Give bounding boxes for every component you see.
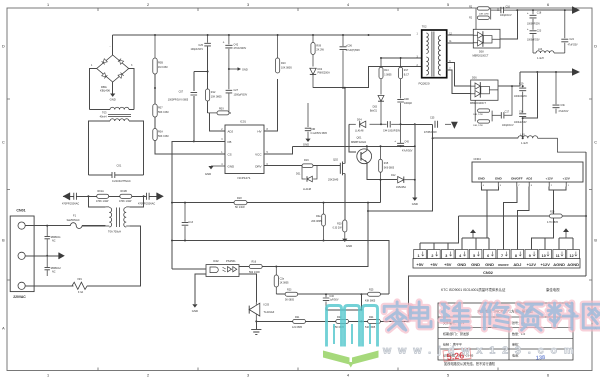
svg-text:56K C0M: 56K C0M	[158, 111, 168, 114]
svg-text:GND: GND	[228, 164, 236, 168]
wire D08 output	[500, 10, 517, 39]
svg-text:T02: T02	[422, 25, 427, 29]
common-mode choke T01 700uH	[106, 207, 130, 234]
wire CN02 GND bracket	[462, 238, 489, 250]
svg-text:470K 1/2W: 470K 1/2W	[119, 200, 132, 203]
wire GND line	[414, 124, 416, 197]
svg-text:MBR20100CT: MBR20100CT	[470, 102, 486, 105]
svg-text:BaV21: BaV21	[370, 109, 378, 112]
capacitor C17 snub mid	[492, 86, 514, 127]
svg-text:2SK2645: 2SK2645	[328, 178, 339, 181]
svg-text:470PF/250V: 470PF/250V	[424, 132, 437, 134]
transistor Q02 MOSFET	[328, 157, 345, 181]
svg-text:470PF/250VAC: 470PF/250VAC	[138, 203, 155, 206]
svg-text:GND: GND	[242, 67, 248, 71]
wire C01 rail	[88, 174, 143, 176]
svg-text:9: 9	[529, 254, 531, 258]
node snubber junctions	[342, 87, 346, 89]
wire FB bus1	[172, 202, 381, 204]
svg-text:+12V: +12V	[563, 176, 571, 180]
svg-text:NCP1271: NCP1271	[237, 176, 250, 180]
svg-text:5K 1/4W: 5K 1/4W	[235, 206, 245, 209]
resistor R29 snub mid	[473, 100, 492, 127]
transistor Q01 MMBT2222A	[351, 136, 372, 164]
resistor R22	[333, 316, 349, 329]
earth arrow right	[157, 193, 164, 201]
svg-text:R0X: R0X	[219, 108, 224, 111]
resistor R23	[285, 289, 298, 302]
svg-text:P6KE200A: P6KE200A	[318, 72, 331, 75]
svg-text:C16: C16	[506, 6, 511, 9]
svg-text:VR1: VR1	[77, 278, 82, 281]
svg-text:GND: GND	[495, 176, 503, 180]
svg-text:GND: GND	[485, 262, 494, 267]
svg-text:2: 2	[147, 374, 149, 378]
svg-text:+: +	[527, 11, 529, 15]
watermark logo teal books	[327, 306, 378, 347]
watermark text wang	[583, 304, 600, 328]
svg-text:C07: C07	[179, 90, 184, 93]
wire T02 pin7 to D06	[447, 70, 471, 93]
wire CN04 GND bracket	[481, 187, 498, 239]
svg-text:R01A: R01A	[98, 190, 105, 193]
watermark text jia	[384, 302, 410, 330]
svg-text:C27: C27	[234, 89, 239, 92]
resistor R28	[547, 210, 562, 223]
node C42 gnd junction	[228, 68, 230, 70]
svg-text:D02: D02	[318, 68, 323, 71]
ground bridge minus	[112, 82, 114, 94]
wire Q02 source to sense	[344, 173, 346, 220]
svg-text:R25: R25	[369, 289, 374, 292]
svg-text:PS2561: PS2561	[226, 259, 236, 263]
output arrow +24V	[572, 6, 580, 14]
capacitor C27	[226, 69, 248, 113]
resistor R15 on ADJ line	[208, 108, 231, 115]
wire opto pin1	[172, 268, 206, 270]
svg-text:R0B: R0B	[158, 62, 163, 65]
svg-text:SB08C12: SB08C12	[51, 267, 62, 270]
watermark text dian	[410, 302, 431, 327]
node rail U junction	[360, 293, 362, 295]
resistor R10 HV	[276, 35, 293, 73]
svg-text:-: -	[110, 45, 111, 49]
svg-text:B: B	[2, 238, 5, 242]
svg-text:NC: NC	[52, 240, 56, 243]
connector CN01	[10, 208, 34, 298]
svg-text:GND: GND	[346, 244, 352, 248]
svg-text:0.22UF/275VAC: 0.22UF/275VAC	[112, 179, 131, 183]
resistor R0B 1M	[153, 35, 168, 74]
filter choke T03	[100, 107, 131, 121]
capacitor C02 Y-cap	[62, 193, 79, 206]
wire FB bus2	[172, 241, 389, 295]
wire Q02 drain	[344, 88, 346, 164]
wire VR1 to T01 return	[87, 226, 140, 286]
svg-text:0.33 2W: 0.33 2W	[333, 227, 343, 230]
diode D02 P6KE200A	[310, 55, 330, 88]
svg-text:+12V: +12V	[540, 262, 550, 267]
svg-text:10: 10	[542, 254, 546, 258]
wire R0B to R07	[154, 74, 156, 104]
wire Q01 emitter	[367, 162, 397, 180]
wire HV net	[264, 79, 278, 131]
svg-text:+5V: +5V	[416, 262, 424, 267]
frame column numbers top	[47, 3, 549, 7]
svg-text:4: 4	[347, 374, 349, 378]
wire CN02 AGND bracket	[559, 238, 573, 250]
capacitor C16 snub	[491, 6, 518, 17]
svg-text:47uF/16V: 47uF/16V	[558, 111, 568, 113]
svg-text:43K 0805: 43K 0805	[365, 300, 376, 303]
ground TL431	[255, 321, 257, 329]
wire bridge AC right rail	[129, 69, 134, 110]
title block header text	[441, 287, 560, 292]
capacitor C18	[527, 10, 542, 30]
svg-text:1 0805: 1 0805	[384, 73, 392, 76]
svg-text:A: A	[2, 326, 5, 330]
svg-text:1000UF/16V: 1000UF/16V	[514, 96, 527, 98]
capacitor C19	[514, 82, 527, 113]
blue phone scribble	[536, 355, 546, 362]
svg-text:40mH: 40mH	[100, 115, 107, 119]
watermark text liao	[548, 303, 577, 329]
capacitor C13	[182, 203, 194, 241]
wire T02 pin9 to D06	[447, 63, 471, 87]
resistor R19 gate	[302, 159, 313, 167]
svg-text:R14: R14	[384, 69, 389, 72]
svg-text:10R, 12W: 10R, 12W	[473, 125, 484, 127]
capacitor C06 snubber	[340, 35, 361, 88]
resistor R24	[365, 316, 380, 329]
wire CN04 pin stubs	[481, 182, 569, 187]
svg-text:C44 100UF/50V: C44 100UF/50V	[383, 129, 401, 132]
wire T03 bottom leads to EMI rails	[88, 121, 143, 175]
resistor R09 snubber	[311, 35, 325, 55]
wire resistor rail	[63, 195, 157, 197]
node stair junction	[432, 137, 434, 139]
capacitor C23	[527, 27, 542, 53]
node right rail junction	[585, 215, 587, 217]
output arrow +12V	[572, 68, 580, 76]
svg-text:1: 1	[47, 374, 49, 378]
svg-text:4.7K 0805: 4.7K 0805	[547, 221, 559, 224]
wire Q01 collector	[366, 146, 368, 150]
svg-text:1N5245A: 1N5245A	[396, 186, 406, 189]
svg-text:470PF/250VAC: 470PF/250VAC	[62, 203, 79, 206]
svg-text:0.1uF/50V 0805: 0.1uF/50V 0805	[311, 133, 328, 135]
svg-text:C: C	[594, 140, 597, 144]
wire HV DC bus	[113, 34, 411, 36]
node link junction	[522, 117, 524, 139]
inductor L03	[518, 133, 586, 152]
svg-text:DRV: DRV	[255, 164, 261, 168]
svg-text:C0R: C0R	[311, 128, 316, 131]
svg-text:1000pF: 1000pF	[404, 102, 413, 105]
resistor R01A	[96, 190, 109, 203]
svg-text:1.4uH: 1.4uH	[537, 57, 544, 60]
svg-text:C17: C17	[505, 111, 510, 114]
svg-text:3: 3	[445, 254, 447, 258]
svg-text:D: D	[2, 44, 5, 48]
inductor L04	[533, 48, 565, 60]
diode D04 LL4148	[349, 118, 387, 132]
svg-text:GND: GND	[457, 262, 466, 267]
capacitor C08 aux	[397, 79, 412, 125]
svg-text:47uF(P)/50V: 47uF(P)/50V	[346, 49, 361, 52]
wire R28 drop	[448, 216, 458, 243]
svg-text:R0a: R0a	[316, 215, 321, 218]
svg-text:GND: GND	[478, 176, 486, 180]
svg-text:5: 5	[447, 3, 449, 7]
svg-text:R23: R23	[287, 289, 292, 292]
wire emitter drop to bus1	[380, 180, 382, 203]
svg-text:+12V: +12V	[546, 176, 554, 180]
svg-text:LL4148: LL4148	[355, 129, 364, 132]
svg-text:20K 0805: 20K 0805	[311, 220, 322, 223]
capacitor C24	[561, 10, 578, 53]
node VCC rail junctions	[366, 145, 402, 180]
capacitor C46	[323, 293, 339, 310]
wire CN01 pin3 to VR1	[25, 285, 73, 287]
wire T01 left bottom	[82, 225, 106, 227]
watermark text wei	[441, 303, 469, 329]
svg-text:47uF/25V: 47uF/25V	[568, 44, 578, 46]
svg-text:K 3A: K 3A	[78, 291, 84, 294]
svg-text:1.4uH: 1.4uH	[521, 142, 528, 145]
svg-text:C23: C23	[537, 29, 542, 32]
svg-text:3: 3	[247, 3, 249, 7]
svg-text:+: +	[527, 27, 529, 31]
bridge rectifier DB1 KBL406	[91, 45, 133, 93]
resistor R07	[153, 104, 169, 117]
wire rail L	[256, 320, 408, 322]
ground CN02 AGND pins	[563, 228, 569, 238]
fuse F1	[67, 213, 83, 228]
wire bridge AC left rail	[90, 69, 97, 110]
resistor R12	[206, 89, 223, 101]
svg-text:C3b: C3b	[560, 104, 565, 107]
wire FB net	[172, 141, 225, 269]
node bus1 junctions	[171, 202, 369, 204]
svg-text:C01: C01	[117, 164, 122, 168]
svg-text:C42: C42	[234, 43, 239, 46]
svg-text:D04: D04	[357, 118, 362, 121]
svg-text:7: 7	[501, 254, 503, 258]
svg-text:康佳电视: 康佳电视	[546, 287, 560, 292]
svg-text:KTC ISO9001 ISO14001质量环境体系认证: KTC ISO9001 ISO14001质量环境体系认证	[441, 287, 506, 292]
node bus2 junctions	[171, 240, 186, 242]
svg-text:Q02: Q02	[333, 157, 338, 161]
svg-text:AGND: AGND	[567, 262, 579, 267]
wire rail M	[326, 294, 361, 310]
node TL431 anode	[255, 320, 257, 322]
svg-text:L03: L03	[521, 133, 526, 136]
svg-text:D08: D08	[479, 50, 484, 53]
wire startup chain to CS net	[155, 141, 225, 155]
svg-text:CS: CS	[228, 152, 232, 156]
ground C42 tap	[229, 67, 248, 71]
svg-text:5K 0805: 5K 0805	[285, 299, 295, 302]
svg-text:ADJ: ADJ	[228, 130, 234, 134]
resistor R18 bus1	[234, 197, 247, 209]
ground opto	[192, 304, 198, 313]
node C07 junctions	[193, 71, 209, 143]
wire fuse to T01	[82, 225, 106, 227]
wire R28 rail	[458, 215, 586, 217]
svg-text:12: 12	[570, 254, 574, 258]
wire aux winding rail	[381, 57, 422, 59]
svg-text:HV: HV	[257, 130, 261, 134]
capacitor C11 NC	[45, 226, 62, 256]
ground C09	[303, 139, 311, 147]
svg-text:+5V: +5V	[444, 262, 452, 267]
varistor VR1	[72, 278, 87, 294]
node D06 out junctions	[511, 85, 524, 87]
svg-text:VCC: VCC	[255, 152, 262, 156]
svg-text:GND: GND	[192, 309, 198, 313]
svg-text:核期(部门)：研发部: 核期(部门)：研发部	[443, 331, 469, 336]
svg-text:6: 6	[487, 254, 489, 258]
svg-text:T03: T03	[102, 111, 107, 115]
watermark text zi	[517, 304, 542, 330]
svg-text:R17: R17	[404, 69, 409, 72]
svg-text:R24: R24	[369, 316, 374, 319]
svg-text:R07: R07	[158, 107, 163, 110]
capacitor C07	[168, 72, 208, 142]
svg-text:2: 2	[431, 254, 433, 258]
svg-text:10K 0805: 10K 0805	[211, 95, 222, 98]
diode D06 MBR20100CT	[470, 77, 498, 105]
svg-text:ON/OFF: ON/OFF	[511, 176, 523, 180]
wire CN04 +12V bracket	[531, 187, 566, 239]
wire snubber rail	[313, 67, 422, 88]
wire CN04 ON/OFF run	[504, 187, 517, 250]
capacitor C45 VCC	[394, 124, 413, 152]
svg-text:R12: R12	[211, 91, 216, 94]
svg-text:如改电路仅从其完结，恕不另行通知: 如改电路仅从其完结，恕不另行通知	[444, 361, 495, 366]
resistor R0a 20K	[311, 202, 325, 242]
frame row letters right	[594, 44, 597, 330]
wire CN02 +12V bracket	[531, 238, 545, 250]
wire feedback stair A	[276, 203, 368, 267]
frame column numbers bottom	[47, 374, 549, 378]
svg-text:47uF/50V: 47uF/50V	[402, 149, 413, 152]
wire +12V CN rail	[433, 137, 518, 139]
svg-text:www.jdwx123.com: www.jdwx123.com	[382, 345, 580, 357]
svg-text:1: 1	[417, 254, 419, 258]
node rail junctions	[87, 195, 144, 197]
svg-text:C34: C34	[519, 110, 524, 113]
resistor R01B	[119, 190, 132, 203]
capacitor C35 Y-cap secondary	[424, 117, 438, 135]
node GND line junctions	[414, 123, 416, 180]
resistor R14 aux	[379, 58, 392, 79]
svg-text:2: 2	[147, 3, 149, 7]
svg-text:D12: D12	[391, 174, 396, 177]
wire CN01 pin2 earth	[25, 255, 59, 257]
wire T02 pin11 to D08	[447, 42, 474, 44]
svg-text:TL431AZ: TL431AZ	[264, 310, 275, 314]
svg-text:1000uF/25V: 1000uF/25V	[527, 40, 540, 42]
capacitor C31	[553, 72, 569, 114]
wire EMI rails to T01	[88, 196, 143, 207]
diode D01 LL4148 gate	[296, 166, 317, 192]
node bus junctions	[154, 34, 370, 36]
red stamp	[443, 348, 471, 362]
svg-text:+C06: +C06	[346, 45, 353, 48]
capacitor C25	[190, 35, 210, 51]
svg-text:R01B: R01B	[121, 190, 128, 193]
svg-text:R15: R15	[384, 162, 389, 165]
svg-text:CN01: CN01	[16, 208, 25, 212]
node C11 C12 tap	[46, 255, 48, 257]
wire D06 output	[498, 72, 520, 86]
node +24V junctions	[516, 9, 566, 11]
svg-text:56K C0M: 56K C0M	[158, 135, 168, 138]
connector CN04	[472, 157, 583, 182]
svg-text:IC01: IC01	[240, 119, 246, 123]
svg-text:11: 11	[556, 254, 560, 258]
svg-text:C46: C46	[329, 295, 334, 298]
svg-text:MMBT2222A: MMBT2222A	[351, 140, 366, 144]
svg-text:GND: GND	[471, 262, 480, 267]
ground aux cluster	[412, 198, 418, 207]
svg-text:B,C?: B,C?	[404, 73, 410, 76]
node startup mid	[154, 87, 156, 89]
wire CN01 pin1 to fuse	[25, 225, 70, 227]
wire R19 to gate	[313, 165, 340, 167]
svg-text:IC02: IC02	[213, 259, 219, 263]
svg-text:+: +	[223, 41, 225, 45]
op-amp IC03 TL431AZ	[249, 303, 274, 322]
svg-text:L04: L04	[538, 48, 543, 51]
resistor R26 1K	[274, 267, 289, 295]
wire CN04 ADJ run	[517, 187, 529, 250]
resistor R16	[249, 260, 262, 273]
ground CN02 GND pins	[470, 229, 476, 238]
wire VCC pin net	[264, 146, 292, 154]
svg-text:LL4148: LL4148	[303, 188, 312, 191]
svg-text:+12V: +12V	[527, 262, 537, 267]
watermark logo green book	[323, 351, 379, 368]
wire rail U	[276, 293, 389, 295]
svg-text:Q01: Q01	[357, 136, 362, 140]
svg-text:10K 0805: 10K 0805	[281, 66, 292, 69]
ground IC01 pin4	[205, 166, 225, 176]
diode D03 BaV21	[370, 79, 384, 125]
capacitor C01 X-cap	[112, 164, 131, 183]
earth arrow left	[63, 193, 70, 201]
ground Q02 source	[342, 232, 352, 248]
svg-text:GND: GND	[412, 202, 418, 206]
node fuse wire junction	[46, 225, 48, 227]
watermark url	[382, 345, 580, 357]
svg-text:100pF/1KV: 100pF/1KV	[502, 125, 514, 127]
ground secondary	[445, 122, 458, 129]
svg-text:C18: C18	[537, 11, 542, 14]
svg-text:R20: R20	[337, 222, 342, 225]
svg-text:10R, 12W: 10R, 12W	[473, 114, 484, 116]
capacitor C03 Y-cap	[138, 193, 155, 206]
op-amp U01 NCP1271 controller	[221, 119, 268, 180]
svg-text:4: 4	[347, 3, 349, 7]
svg-text:C0R: C0R	[404, 98, 409, 101]
svg-text:R19: R19	[304, 159, 309, 162]
wire ADJ pin net	[210, 113, 232, 131]
svg-text:C13: C13	[188, 221, 193, 224]
svg-text:AGND: AGND	[553, 262, 565, 267]
